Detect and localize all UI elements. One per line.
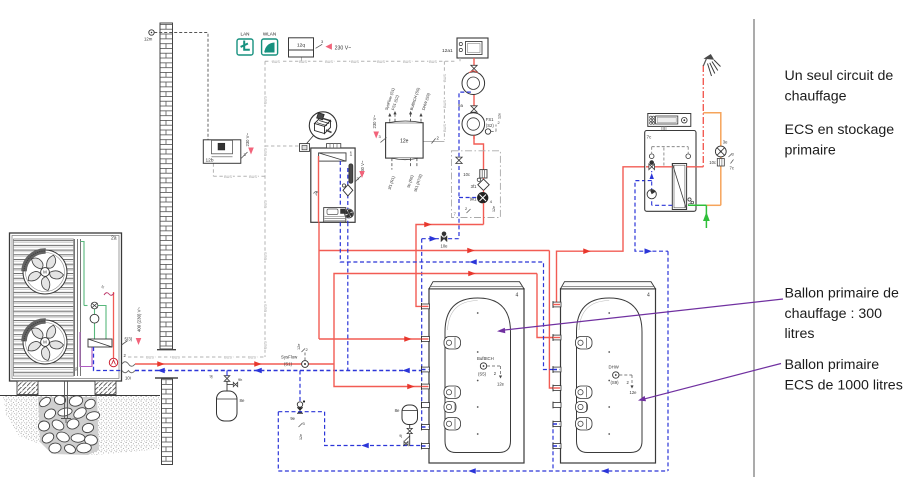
svg-text:Un seul circuit de: Un seul circuit de [785,68,894,84]
svg-text:3f1: 3f1 [471,184,477,189]
svg-text:BUS: BUS [443,124,447,132]
callout arrow to tank1 [500,299,783,331]
svg-text:12e: 12e [498,113,502,119]
svg-text:BUS: BUS [264,341,268,349]
pump 9k1 [483,191,485,193]
red trunk y273 [334,274,537,365]
svg-text:8e: 8e [240,398,245,403]
red trunk y250 [318,222,320,339]
tank1 connection stubs [422,304,430,309]
svg-text:BUS: BUS [443,100,447,108]
heating flow red riser [473,58,475,139]
blue valve [456,157,462,163]
svg-text:10i: 10i [125,376,131,381]
red tank2 top to station [557,167,647,305]
svg-text:BUS: BUS [272,60,280,64]
tank 1 (chauffage 300L) heater flange pockets [444,337,461,350]
callout arrow to tank2 [641,364,781,400]
blue drop to tank1 port6 [422,239,429,427]
DHW pipe to shower [702,65,704,167]
4-way valve [91,302,98,309]
red branch to tank1 port4 [334,364,429,387]
unit top vent [327,144,341,148]
svg-text:12q: 12q [297,43,305,49]
svg-text:BUS: BUS [248,356,256,360]
svg-text:10c: 10c [709,160,716,165]
svg-text:7c: 7c [730,166,734,171]
return arrow [402,368,410,374]
buffer tank 2 (ECS 1000L) outer jacket [561,289,656,463]
annotation text right [785,68,903,393]
svg-text:WLAN: WLAN [263,32,276,37]
refrigerant line green [81,242,85,306]
svg-text:primaire: primaire [785,142,836,158]
svg-text:10e: 10e [441,244,449,249]
red link y224 [416,225,484,307]
svg-text:ECS de 1000 litres: ECS de 1000 litres [785,377,903,393]
heating blue return [459,92,471,239]
red drop x537 to tank2 port2 [537,274,561,338]
gravel pit with stones [38,395,101,455]
divider line [753,19,755,477]
return arrow [254,368,262,374]
unit pump [345,209,354,218]
svg-text:(S1): (S1) [284,362,293,367]
BUS line horizontal top [265,60,457,62]
BUS vertical x444 [443,61,445,140]
unit heat exchanger [319,153,346,161]
cold water inlet green [688,204,706,206]
power feed 12q [316,44,323,48]
station red primary in [646,166,672,168]
wall upper base cap [157,349,176,351]
buffer tank 1 (chauffage 300L) outer jacket [429,289,524,463]
expansion capsule [349,164,353,183]
HP feet [17,381,38,395]
blue trunk y262 [340,222,561,369]
arrow [469,259,477,265]
svg-text:BUS: BUS [264,200,268,208]
svg-text:M: M [43,340,47,345]
HP circulation pump [109,358,117,366]
BUS spur to indoor unit [265,145,300,147]
balancing valve 10c [480,170,487,178]
tank 1 (chauffage 300L) lid [429,282,524,289]
svg-text:BUS: BUS [146,356,154,360]
tank 2 (ECS 1000L) lid [561,282,656,289]
circulation pump 9a upper [462,72,485,95]
detail bubble connector [309,112,336,139]
tank 1 (chauffage 300L) inner vessel [445,298,511,453]
svg-text:BUS: BUS [172,356,180,360]
tank 2 (ECS 1000L) inner vessel [577,298,643,453]
svg-text:(S9): (S9) [611,380,620,385]
station controller display [648,114,691,127]
svg-text:Ballon primaire de: Ballon primaire de [785,286,899,302]
svg-text:SysFlow: SysFlow [281,355,298,360]
bubble pointer line [307,136,314,144]
blue riser to tank1 port7 [325,412,429,446]
svg-text:12e: 12e [400,138,409,144]
arrow [467,248,475,254]
flex squiggle 3f [104,293,114,296]
blue bottom loop [278,470,668,472]
svg-text:litres: litres [785,326,815,342]
controller 12e box [386,123,424,158]
svg-text:Ballon primaire: Ballon primaire [785,357,880,373]
svg-text:230 V~: 230 V~ [372,115,377,129]
room station 12a1 [457,38,488,58]
svg-text:3e: 3e [723,140,728,145]
arrow [468,271,476,277]
station wiring dashes [652,146,689,148]
flow pipe red heat pump to x334 [135,363,334,365]
indoor unit 1 casing [311,148,355,222]
svg-text:BUS: BUS [377,60,385,64]
svg-text:400 (230) V~: 400 (230) V~ [137,307,142,332]
12e sensor leads top [389,114,391,122]
return pipe blue to heat pump [135,370,429,372]
brick wall lower segment [162,379,173,465]
sensor lead 12m to 12b [154,33,208,140]
svg-text:BUS: BUS [264,252,268,260]
unit control box [324,208,346,222]
12e relay leads bottom [391,158,393,170]
condensate drain pipe [64,381,66,418]
svg-text:12e: 12e [299,434,303,440]
internet gateway 12q [289,38,314,57]
station red to tap riser [687,166,704,168]
tank2 connection stubs [553,302,561,307]
svg-text:10c: 10c [463,172,470,177]
flex connector on return pipe [122,371,135,373]
station pump [647,190,656,199]
station ribbon cable [661,126,663,147]
valve 9e [297,402,302,407]
svg-text:4: 4 [516,293,519,299]
blue header y411 [278,411,324,413]
blue elbow x278 [277,412,279,471]
arrow 10e [430,236,438,242]
mixing valve 3f1 [483,178,485,179]
expansion vessel 8e right [402,405,418,425]
compressor [90,314,99,323]
svg-text:BUS: BUS [224,175,232,179]
BUS drop from gateway 12q [301,57,303,61]
blue to 9k1 [459,197,478,199]
station sensors [649,154,654,159]
tank1 stub pipe fills [422,305,429,307]
svg-text:BUS: BUS [249,175,257,179]
valve 10e [441,236,447,242]
svg-text:BUS: BUS [264,96,268,104]
flex connector on flow pipe [122,362,135,367]
svg-text:BUS: BUS [351,60,359,64]
svg-text:BUS: BUS [224,356,232,360]
return arrow [157,368,165,374]
svg-text:BUS: BUS [325,60,333,64]
blue from station 7c [635,181,668,252]
station inlet valve [649,164,655,170]
bypass line 10e [422,238,459,240]
hot gas line red HP [113,292,115,359]
red to tank1 port2 [319,338,429,340]
svg-text:BUS: BUS [264,304,268,312]
link 2 from 12e to bus [423,141,444,143]
controller 12b [203,140,241,164]
svg-text:5(3): 5(3) [125,337,133,342]
svg-text:BUS: BUS [264,148,268,156]
ground soil stipple [3,396,160,455]
heat pump outdoor unit 2a - casing [10,233,122,381]
power arrow 5(3) [136,338,142,345]
heating red down to y224 [483,203,485,225]
wall connector box [300,144,310,152]
svg-text:9j: 9j [209,374,212,379]
tank 1 (chauffage 300L) weld dots [477,312,479,314]
svg-text:9e: 9e [290,416,295,421]
unit diverter diamond [343,185,353,196]
outdoor sensor 12m [149,30,154,35]
BUS vertical x265 [264,61,266,357]
EVI line purple [80,332,92,367]
station HX [672,164,686,210]
shower head [703,59,706,67]
blue tank2 ports riser [553,446,561,471]
red jog [474,135,484,169]
flow arrow [254,361,262,367]
svg-text:4: 4 [647,293,650,299]
mixed water pipe orange [703,113,721,146]
unit blue lines [339,161,341,222]
svg-text:12e: 12e [497,382,505,387]
svg-text:BUS: BUS [299,60,307,64]
heat pump fin stack [14,239,74,376]
flow arrow [157,361,165,367]
station blue return [652,204,673,206]
blue loop riser right [667,251,669,471]
svg-text:FS1: FS1 [486,117,494,122]
blue unit return drop [347,222,349,370]
svg-text:12a1: 12a1 [442,48,453,54]
svg-text:(S5): (S5) [478,371,487,376]
expansion vessel 8e left [224,376,230,382]
svg-text:8e: 8e [395,408,400,413]
tank 2 (ECS 1000L) weld dots [608,312,610,314]
heat pump fan 1 [23,250,67,294]
circulation pump 9a lower [462,113,485,136]
valve 10c station [717,159,724,167]
svg-text:9h: 9h [238,377,242,382]
unit left squiggle [314,192,318,196]
tank2 stub pipe fills [553,304,560,306]
brick wall upper segment [160,23,173,349]
arrow on y224 [424,222,432,228]
svg-text:7c: 7c [647,135,653,140]
svg-text:chauffage: chauffage [785,88,847,104]
tank 2 (ECS 1000L) heater flange pockets [576,337,593,350]
station vent bits [688,198,691,201]
svg-text:BUS: BUS [429,60,437,64]
mixing valve 3e [715,146,726,157]
svg-text:9j: 9j [399,434,402,438]
gray enclosure 7 [452,151,501,218]
svg-text:12e: 12e [492,206,496,212]
blue line inside HP [94,347,123,371]
sensor SysFlow S1 [302,361,309,368]
svg-text:chauffage : 300: chauffage : 300 [785,306,883,322]
ground surface line [0,395,160,397]
svg-text:M: M [43,270,47,275]
svg-text:12b: 12b [206,158,214,164]
svg-text:BufBtCH: BufBtCH [477,356,494,361]
shutoff valve [471,65,477,71]
svg-text:12m: 12m [144,37,153,42]
svg-text:12e: 12e [297,344,301,350]
svg-text:9b: 9b [75,367,79,371]
svg-text:1: 1 [350,152,353,158]
arrow [583,248,591,254]
svg-text:LAN: LAN [241,32,250,37]
shutoff valve [471,106,477,112]
heat pump fan 2 [23,320,67,364]
fresh water station 7c box [645,131,696,212]
BUS line to heat pump [128,356,265,358]
wall lower top cap [155,377,178,379]
heat pump coil lines [74,239,76,376]
unit red riser [318,156,320,222]
blue branch 9e [299,371,301,404]
svg-text:DHW: DHW [609,365,620,370]
svg-text:230 V~: 230 V~ [335,45,352,51]
BUS from 12b to x265 [212,163,214,176]
svg-text:2: 2 [498,120,500,125]
svg-text:ECS en stockage: ECS en stockage [785,122,895,138]
red drop x549 to tank2 port4 [549,251,561,389]
plate heat exchanger HP [88,339,112,347]
red trunk y250 horizontal [319,250,549,252]
svg-text:(S2): (S2) [486,123,495,128]
svg-text:BUS: BUS [403,60,411,64]
svg-text:2a: 2a [111,236,117,242]
svg-text:BUS: BUS [443,74,447,82]
svg-text:12e: 12e [630,390,638,395]
svg-text:230 V~: 230 V~ [245,133,250,147]
